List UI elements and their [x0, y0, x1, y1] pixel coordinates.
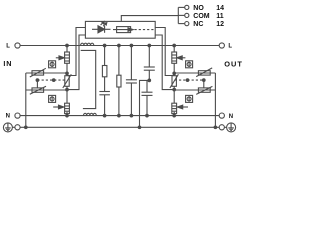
capacitor C1 [99, 92, 110, 116]
relay dashed linkage [135, 29, 156, 31]
svg-text:11: 11 [216, 13, 224, 20]
varistor RU2 branch wire [26, 89, 67, 91]
svg-text:OUT: OUT [224, 59, 243, 68]
wire mid jog [140, 80, 150, 127]
wire F2 to N [66, 112, 68, 116]
monitor wire B right [155, 35, 174, 90]
relay K1 [113, 27, 133, 33]
terminal N right [219, 113, 224, 118]
node var1R left [173, 72, 176, 75]
wire PE main [20, 126, 219, 128]
wire N main [20, 115, 219, 117]
arrow to F3 [177, 56, 186, 60]
node var2R left [173, 88, 176, 91]
wire rail var2-F2 [66, 86, 68, 103]
inductor L1 (L line choke winding) [81, 43, 94, 45]
linkage node d [203, 79, 206, 82]
monitor wire A right [155, 28, 174, 76]
choke core link [81, 50, 96, 108]
arrow to F2 [53, 105, 64, 109]
monitoring box U1 [85, 21, 155, 38]
varistor RU2 [30, 86, 46, 94]
indicator box TD1 [49, 61, 56, 68]
node right rail PE [214, 126, 217, 129]
svg-text:IN: IN [3, 59, 12, 68]
node L-F3 [173, 44, 176, 47]
svg-text:L: L [6, 44, 10, 50]
node F2-N [66, 114, 69, 117]
svg-text:N: N [229, 114, 233, 120]
capacitor C3 [144, 46, 155, 81]
wire F4 to N [173, 112, 175, 116]
terminal PE left [15, 125, 20, 130]
varistor RU1 branch wire [26, 72, 67, 74]
node L-C3 [148, 44, 151, 47]
wire F1 rail top [66, 46, 68, 53]
linkage stub right [203, 80, 205, 88]
node C4-N [146, 114, 149, 117]
mech linkage dashed right [175, 79, 204, 81]
svg-text:COM: COM [193, 13, 210, 20]
svg-text:L: L [228, 44, 232, 50]
node L-R2 [118, 44, 121, 47]
linkage node c [186, 79, 189, 82]
arrow to F1 [56, 56, 65, 60]
svg-text:NC: NC [193, 21, 203, 28]
fuse F1 (thermal disconnect left) [65, 52, 70, 63]
arrow to F4 [177, 105, 188, 109]
svg-text:NO: NO [193, 5, 204, 12]
node L-F1 [66, 44, 69, 47]
svg-text:14: 14 [216, 5, 224, 12]
linkage node b [52, 79, 55, 82]
linkage stub [36, 80, 38, 88]
node left rail PE [25, 126, 28, 129]
node var2 right [66, 88, 69, 91]
indicator box TD4 [186, 95, 193, 102]
ground left [3, 123, 15, 132]
varistor RU5 branch wire [174, 89, 215, 91]
wire left rail to PE [25, 73, 27, 127]
fuse F4 (thermal disconnect bottom right) [172, 103, 177, 113]
varistor RU1 [30, 68, 46, 77]
inductor L2 (N line choke winding) [84, 113, 97, 115]
ground right [224, 123, 235, 132]
contact NC circle [185, 22, 189, 26]
capacitor C2 [126, 46, 137, 116]
contact bracket [178, 7, 184, 23]
monitor wire A left [67, 28, 85, 76]
node var1 right [66, 72, 69, 75]
terminal N left [15, 113, 20, 118]
varistor RU3 (vertical) [63, 74, 72, 88]
wire rail var2R-F4 [173, 86, 175, 103]
LED D1 [92, 21, 111, 32]
wire rail F3-var [173, 63, 175, 75]
node L-C2 [130, 44, 133, 47]
linkage node a [36, 79, 39, 82]
terminal PE right [219, 125, 224, 130]
terminal L right [219, 43, 224, 48]
varistor RU4 [196, 68, 212, 77]
indicator box TD2 [49, 95, 56, 102]
indicator box TD3 [186, 61, 193, 68]
varistor RU6 (vertical) [170, 74, 179, 88]
wire rail F1-var [66, 63, 68, 75]
fuse F2 (thermal disconnect bottom left) [65, 103, 70, 113]
wire L main [20, 45, 219, 47]
capacitor C4 [142, 80, 153, 115]
wire F3 rail top [173, 46, 175, 53]
monitor wire B left [67, 35, 85, 90]
fuse F3 (thermal disconnect right) [172, 52, 177, 63]
resistor R1 [102, 46, 107, 92]
node F4-N [173, 114, 176, 117]
node C2-N [130, 114, 133, 117]
node R2-N [118, 114, 121, 117]
mech linkage dashed left [37, 79, 66, 81]
varistor RU5 [196, 86, 212, 94]
svg-text:N: N [6, 114, 10, 120]
resistor R2 [117, 46, 121, 116]
wire right rail to PE [214, 73, 216, 127]
node C3 mid [148, 79, 151, 82]
contact COM circle [185, 13, 189, 17]
node C1-N [103, 114, 106, 117]
terminal L left [15, 43, 20, 48]
contact NO circle [185, 5, 189, 9]
wire box to contacts [121, 16, 178, 22]
varistor RU4 branch wire [174, 72, 215, 74]
node PE mid [138, 126, 141, 129]
svg-text:12: 12 [216, 21, 224, 28]
node L-R1 [103, 44, 106, 47]
